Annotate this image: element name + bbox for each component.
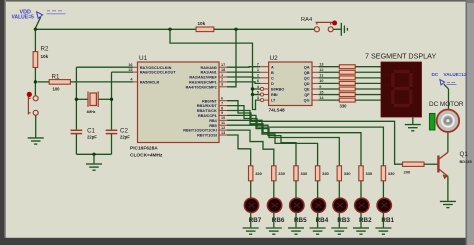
- capacitor C1 22pF: [71, 130, 83, 133]
- U2 pin 7 A: [260, 66, 269, 68]
- resistor 330 segment E: [339, 87, 355, 91]
- capacitor C2 22pF: [106, 130, 118, 133]
- ground (RB6 chain): [266, 228, 282, 234]
- resistor R1: [49, 80, 70, 85]
- wire VDD to R2: [34, 29, 36, 51]
- svg-text:RA2/AN2/VREF: RA2/AN2/VREF: [189, 76, 217, 80]
- wire U1 RB7 to chain: [227, 135, 251, 166]
- ground (RB3 chain): [331, 228, 347, 234]
- svg-text:RB6: RB6: [272, 217, 285, 224]
- transistor Q1 BD135: [438, 152, 448, 178]
- wire junction to R1: [38, 81, 50, 83]
- svg-text:100: 100: [53, 86, 61, 91]
- node RBI junction: [251, 93, 254, 96]
- svg-text:RB3/CCP1: RB3/CCP1: [198, 114, 217, 118]
- svg-text:RB5: RB5: [294, 217, 307, 224]
- svg-text:RB1: RB1: [381, 217, 394, 224]
- node crystal right junction: [110, 98, 113, 101]
- wire U1 RA2 to U2 C: [227, 76, 260, 79]
- resistor 330 segment D: [339, 81, 355, 85]
- resistor 330 segment F: [339, 93, 355, 97]
- svg-text:PIC16F628A: PIC16F628A: [130, 145, 158, 151]
- wire U2 LT hook: [253, 95, 261, 110]
- wire to U2 RBI: [253, 89, 261, 95]
- svg-text:17: 17: [221, 63, 225, 67]
- svg-text:RB3: RB3: [337, 217, 350, 224]
- window chrome: top edge line: [0, 0, 474, 2]
- svg-text:11: 11: [319, 74, 323, 78]
- wire U1 RB2 to chain: [227, 111, 361, 166]
- svg-text:6: 6: [221, 97, 223, 101]
- wire U1 RA3 to U2 D: [227, 82, 260, 84]
- svg-text:3: 3: [221, 83, 223, 87]
- svg-text:DC: DC: [432, 72, 439, 77]
- power terminal VDD: [37, 12, 43, 19]
- svg-text:C1: C1: [87, 128, 95, 135]
- svg-text:9: 9: [221, 111, 223, 115]
- resistor 330 segment G: [339, 98, 355, 102]
- wire resistor to display segment F: [355, 94, 381, 96]
- resistor 200 (base): [403, 162, 425, 166]
- svg-text:13: 13: [221, 131, 225, 135]
- push button RB4: [311, 198, 325, 212]
- svg-text:RB1/RX/DT: RB1/RX/DT: [197, 104, 218, 108]
- microcontroller U1 PIC16F628A: [138, 62, 220, 143]
- U1 pin 12 RB6/T1OSO/T1CKI: [219, 129, 227, 131]
- resistor R2: [33, 52, 38, 68]
- svg-text:R2: R2: [41, 46, 49, 53]
- wire top rail right segment: [214, 28, 314, 30]
- svg-text:4: 4: [257, 85, 260, 89]
- resistor 330 (RB2 chain): [359, 166, 363, 181]
- svg-text:1: 1: [257, 68, 259, 72]
- U1 pin 3 RA4/T0CKI/CMP2: [219, 86, 227, 88]
- wire Q1 collector to motor: [447, 132, 449, 152]
- wire base resistor to Q1: [424, 163, 438, 165]
- U2 pin 3 LT: [260, 99, 269, 101]
- svg-text:13: 13: [319, 63, 323, 67]
- resistor 10k pull-up: [196, 27, 214, 32]
- svg-text:330: 330: [255, 171, 262, 176]
- U2 pin 14 QG: [312, 99, 319, 101]
- wire resistor to ground (RB2 chain): [360, 181, 362, 228]
- svg-text:U1: U1: [139, 55, 148, 62]
- svg-text:10k: 10k: [41, 54, 49, 59]
- wire U1 RA1 to U2 B: [227, 71, 260, 73]
- U1 pin 13 RB7/T1OSI: [219, 134, 227, 136]
- node BI/RBO junction: [251, 87, 254, 90]
- wire U2 QF to resistor: [319, 94, 340, 96]
- svg-text:QC: QC: [304, 76, 310, 80]
- svg-text:QA: QA: [304, 65, 310, 69]
- wire OSC1: [76, 66, 133, 68]
- push button RB2: [355, 198, 369, 212]
- resistor 330 (RB5 chain): [294, 166, 298, 181]
- resistor 330 segment C: [339, 76, 355, 80]
- U2 pin 2 C: [260, 77, 269, 79]
- node pull-up branch junction: [168, 28, 171, 31]
- resistor 330 (RB4 chain): [315, 166, 319, 181]
- U1 pin 15 RA6/OSC2/CLKOUT: [133, 71, 138, 73]
- wire R1 to MCLR: [70, 81, 133, 83]
- U2 pin 1 B: [260, 71, 269, 73]
- U1 pin 6 RB0/INT: [219, 100, 227, 102]
- U2 pin 9 QE: [312, 88, 319, 90]
- resistor 330 segment B: [339, 70, 355, 74]
- push button RA4: [314, 22, 333, 31]
- svg-text:4: 4: [130, 78, 133, 82]
- U2 pin 6 D: [260, 82, 269, 84]
- wire U1 RA0 to U2 A: [227, 66, 260, 69]
- push button RB6: [267, 198, 281, 212]
- svg-text:1: 1: [221, 73, 223, 77]
- svg-text:QE: QE: [304, 88, 310, 92]
- svg-text:U2: U2: [270, 55, 279, 62]
- svg-text:3: 3: [257, 96, 259, 100]
- U1 pin 10 RB4: [219, 119, 227, 121]
- push button RB5: [290, 198, 304, 212]
- push button RB7: [244, 198, 258, 212]
- svg-text:9: 9: [319, 85, 321, 89]
- svg-text:QF: QF: [304, 93, 310, 97]
- svg-text:4MHz: 4MHz: [87, 110, 96, 114]
- svg-text:8: 8: [221, 106, 223, 110]
- U2 pin 11 QC: [312, 77, 319, 79]
- window chrome: bottom bar: [0, 238, 474, 245]
- wire resistor to ground (RB7 chain): [250, 181, 252, 228]
- resistor 330 (RB6 chain): [272, 166, 276, 181]
- wire rail to ground: [93, 154, 95, 163]
- svg-text:22pF: 22pF: [87, 135, 97, 140]
- svg-text:RA4/T0CKI/CMP2: RA4/T0CKI/CMP2: [186, 85, 217, 89]
- svg-text:2: 2: [257, 74, 259, 78]
- node RA4 branch junction: [234, 28, 237, 31]
- wire OSC2: [112, 71, 134, 73]
- svg-text:RA1/AN1: RA1/AN1: [201, 71, 217, 75]
- svg-text:RB4: RB4: [316, 217, 329, 224]
- svg-text:RA5/MCLR: RA5/MCLR: [140, 81, 160, 85]
- U2 pin 5 RBI: [260, 94, 269, 96]
- wire crystal right: [98, 98, 112, 100]
- svg-text:12: 12: [221, 126, 225, 130]
- 7 segment display: [381, 62, 422, 117]
- svg-text:5: 5: [257, 90, 259, 94]
- wire U1 RB5 to chain: [227, 125, 296, 166]
- wire display common to ground: [412, 117, 414, 124]
- wire power to motor: [448, 89, 450, 109]
- ground (rotated) for RA4 button: [341, 23, 347, 36]
- svg-text:330: 330: [388, 171, 395, 176]
- svg-text:CLOCK=4MHz: CLOCK=4MHz: [130, 152, 163, 158]
- wire Q1 emitter to ground: [447, 176, 449, 201]
- svg-text:330: 330: [301, 171, 308, 176]
- wire C1 column: [75, 67, 77, 130]
- wire button to ground: [35, 115, 37, 137]
- svg-text:10k: 10k: [198, 21, 206, 26]
- wire C2 to ground rail: [111, 134, 113, 154]
- svg-text:11: 11: [221, 121, 225, 125]
- wire C1 to ground rail: [75, 134, 77, 154]
- svg-text:14: 14: [319, 96, 324, 100]
- node R1 junction: [34, 80, 37, 83]
- U2 pin 12 QB: [312, 71, 319, 73]
- svg-text:C2: C2: [120, 128, 128, 135]
- ground (reset button): [28, 138, 44, 144]
- svg-text:RBI: RBI: [271, 93, 278, 97]
- wire resistor to ground (RB1 chain): [382, 181, 384, 228]
- svg-text:RB4: RB4: [209, 119, 217, 123]
- wire VDD diagonal: [35, 17, 40, 28]
- svg-text:74LS48: 74LS48: [269, 107, 286, 112]
- U2 pin 15 QF: [312, 94, 319, 96]
- svg-text:BD135: BD135: [460, 159, 473, 164]
- svg-text:C: C: [271, 76, 274, 80]
- wire U2 QG to resistor: [319, 99, 340, 101]
- node crystal left junction: [75, 98, 78, 101]
- svg-text:12: 12: [319, 68, 323, 72]
- svg-text:LT: LT: [271, 99, 276, 103]
- svg-text:Q1: Q1: [460, 151, 469, 158]
- wire U2 QE to resistor: [319, 88, 340, 90]
- ground (RB4 chain): [310, 228, 326, 234]
- motor speed indicator bar: [429, 113, 435, 130]
- svg-text:2: 2: [221, 78, 223, 82]
- wire pull-up rail to U1 RA4 pin 3: [227, 29, 236, 87]
- svg-text:RB2: RB2: [359, 217, 372, 224]
- svg-text:7 SEGMENT DSPLAY: 7 SEGMENT DSPLAY: [365, 52, 436, 61]
- svg-text:RB7: RB7: [249, 217, 262, 224]
- wire resistor to ground (RB3 chain): [338, 181, 340, 228]
- svg-text:RA3/AN3/CMP1: RA3/AN3/CMP1: [189, 81, 217, 85]
- svg-text:15: 15: [319, 90, 323, 94]
- svg-text:330: 330: [344, 171, 351, 176]
- ground (RB7 chain): [243, 228, 259, 234]
- wire resistor to display segment A: [355, 66, 381, 68]
- svg-text:7: 7: [221, 101, 223, 105]
- svg-text:RA4: RA4: [301, 17, 313, 23]
- U1 pin 2 RA3/AN3/CMP1: [219, 81, 227, 83]
- wire C2 column: [111, 72, 113, 130]
- wire power diagonal: [444, 84, 449, 89]
- svg-text:330: 330: [278, 171, 285, 176]
- svg-text:18: 18: [221, 68, 225, 72]
- wire U1 RB1 to chain: [227, 106, 383, 166]
- node VDD junction: [34, 28, 37, 31]
- wire top rail left segment: [35, 28, 196, 30]
- svg-text:330: 330: [322, 171, 329, 176]
- wire button to ground: [333, 28, 341, 30]
- node ground rail junction: [92, 153, 95, 156]
- U1 pin 11 RB5: [219, 124, 227, 126]
- svg-text:RA6/OSC2/CLKOUT: RA6/OSC2/CLKOUT: [140, 71, 177, 75]
- resistor 330 (RB1 chain): [381, 166, 385, 181]
- wire resistor to display segment E: [355, 88, 381, 90]
- power terminal DC +12V: [440, 80, 445, 85]
- resistor 330 (RB3 chain): [337, 166, 341, 181]
- svg-text:RB0/INT: RB0/INT: [202, 99, 217, 103]
- decoder U2 74LS48: [269, 62, 312, 106]
- wire resistor to ground (RB6 chain): [273, 181, 275, 228]
- U1 pin 18 RA1/AN1: [219, 71, 227, 73]
- ground (RB1 chain): [375, 228, 391, 234]
- svg-text:B: B: [271, 71, 274, 75]
- wire resistor to ground (RB4 chain): [317, 181, 319, 228]
- svg-text:A: A: [271, 65, 274, 69]
- svg-text:330: 330: [366, 171, 373, 176]
- svg-text:VALUE=12: VALUE=12: [444, 72, 467, 77]
- svg-text:RB7/T1OSI: RB7/T1OSI: [197, 134, 217, 138]
- svg-text:16: 16: [128, 63, 132, 67]
- svg-text:QD: QD: [304, 82, 310, 86]
- window chrome: left edge bar: [0, 0, 5, 245]
- svg-text:RA7/OSC1/CLKIN: RA7/OSC1/CLKIN: [140, 66, 172, 70]
- push button RB3: [333, 198, 347, 212]
- wire R2 to button: [34, 68, 36, 96]
- wire U1 RB3 to chain: [227, 115, 339, 165]
- U1 pin 1 RA2/AN2/VREF: [219, 76, 227, 78]
- svg-text:330: 330: [340, 104, 348, 109]
- wire U2 QD to resistor: [319, 82, 340, 84]
- U2 pin 10 QD: [312, 82, 319, 84]
- hidden net text (motor): [447, 82, 457, 84]
- U1 pin 17 RA0/AN0: [219, 66, 227, 68]
- U1 pin 8 RB2/TX/CK: [219, 110, 227, 112]
- hidden net text: [47, 11, 66, 14]
- U1 pin 7 RB1/RX/DT: [219, 105, 227, 107]
- svg-text:10: 10: [319, 79, 323, 83]
- ground (display): [405, 125, 421, 131]
- resistor 330 (RB7 chain): [249, 166, 253, 181]
- ground (RB5 chain): [288, 228, 304, 234]
- U1 pin 4 RA5/MCLR: [133, 81, 138, 83]
- crystal X1 4MHz: [88, 92, 98, 108]
- wire oscillator ground rail: [76, 153, 111, 155]
- push button (MCLR reset): [28, 96, 38, 116]
- svg-text:R1: R1: [52, 74, 60, 81]
- svg-text:10: 10: [221, 116, 225, 120]
- wire resistor to display segment C: [355, 77, 381, 79]
- svg-text:6: 6: [257, 79, 259, 83]
- wire VDD branch to U2 BI/RBO: [170, 29, 260, 89]
- push button RB1: [377, 198, 391, 212]
- wire U1 RB6 to chain: [227, 130, 274, 166]
- wire resistor to display segment B: [355, 71, 381, 73]
- wire U2 QC to resistor: [319, 77, 340, 79]
- svg-text:22pF: 22pF: [120, 135, 130, 140]
- resistor 330 segment A: [339, 65, 355, 69]
- svg-text:RB5: RB5: [209, 124, 217, 128]
- svg-text:DC MOTOR: DC MOTOR: [429, 101, 464, 108]
- wire U2 QB to resistor: [319, 71, 340, 73]
- ground (RB2 chain): [353, 228, 369, 234]
- DC motor M1: [437, 110, 459, 132]
- wire U2 QA to resistor: [319, 66, 340, 68]
- svg-text:RA0/AN0: RA0/AN0: [201, 66, 217, 70]
- ground (Q1): [440, 201, 456, 207]
- svg-text:RB2/TX/CK: RB2/TX/CK: [197, 109, 217, 113]
- wire resistor to display segment G: [355, 99, 381, 101]
- wire U1 RB0 to base resistor: [227, 101, 403, 165]
- wire resistor to display segment D: [355, 82, 381, 84]
- svg-text:200: 200: [404, 170, 411, 175]
- U2 pin 4 BI/RBO: [260, 88, 269, 90]
- window chrome: right gray panel: [466, 0, 474, 245]
- svg-text:QB: QB: [304, 71, 310, 75]
- U1 pin 16 RA7/OSC1/CLKIN: [133, 66, 138, 68]
- U1 pin 9 RB3/CCP1: [219, 114, 227, 116]
- display digit 8: [393, 72, 411, 106]
- wire U1 RB4 to chain: [227, 120, 318, 166]
- svg-text:BI/RBO: BI/RBO: [271, 88, 284, 92]
- wire crystal left: [76, 98, 88, 100]
- svg-text:RB6/T1OSO/T1CKI: RB6/T1OSO/T1CKI: [183, 129, 217, 133]
- svg-text:VALUE=5: VALUE=5: [12, 15, 34, 21]
- svg-text:D: D: [271, 82, 274, 86]
- U2 pin 13 QA: [312, 66, 319, 68]
- wire resistor to ground (RB5 chain): [295, 181, 297, 228]
- ground (oscillator): [86, 164, 102, 170]
- svg-text:15: 15: [128, 68, 132, 72]
- svg-text:7: 7: [257, 63, 259, 67]
- svg-text:QG: QG: [304, 99, 310, 103]
